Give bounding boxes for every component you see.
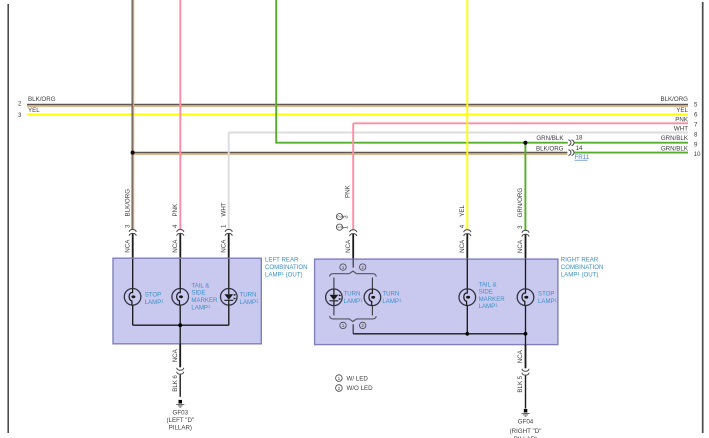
svg-text:NCA: NCA xyxy=(172,348,179,362)
svg-text:1: 1 xyxy=(220,224,227,228)
svg-text:COMBINATION: COMBINATION xyxy=(561,264,604,271)
svg-text:TURN: TURN xyxy=(240,292,257,299)
svg-text:1: 1 xyxy=(343,225,350,229)
svg-text:NCA: NCA xyxy=(517,239,524,253)
svg-text:COMBINATION: COMBINATION xyxy=(265,264,308,271)
svg-text:(LEFT "D": (LEFT "D" xyxy=(166,417,194,424)
svg-text:TAIL &: TAIL & xyxy=(479,281,497,288)
svg-text:WHT: WHT xyxy=(674,125,688,132)
svg-text:PNK: PNK xyxy=(675,116,689,123)
svg-text:FR11: FR11 xyxy=(575,154,590,161)
svg-text:GRN/BLK: GRN/BLK xyxy=(536,135,564,142)
svg-text:NCA: NCA xyxy=(124,239,131,253)
svg-text:YEL: YEL xyxy=(28,107,40,114)
svg-text:SIDE: SIDE xyxy=(479,289,493,296)
svg-text:NCA: NCA xyxy=(459,239,466,253)
svg-text:3: 3 xyxy=(343,215,350,219)
svg-text:SIDE: SIDE xyxy=(191,290,205,297)
svg-text:NCA: NCA xyxy=(220,239,227,253)
svg-text:4: 4 xyxy=(459,224,466,228)
svg-text:BLK/ORG: BLK/ORG xyxy=(536,145,564,152)
svg-text:8: 8 xyxy=(694,131,698,138)
svg-text:3: 3 xyxy=(18,112,22,119)
svg-text:GF04: GF04 xyxy=(518,419,534,426)
svg-text:10: 10 xyxy=(694,151,701,158)
svg-text:TURN: TURN xyxy=(344,291,361,298)
svg-text:3: 3 xyxy=(124,224,131,228)
svg-text:LEFT REAR: LEFT REAR xyxy=(265,257,299,264)
svg-text:MARKER: MARKER xyxy=(191,297,218,304)
svg-text:STOP: STOP xyxy=(145,292,161,299)
svg-text:2: 2 xyxy=(361,323,364,328)
svg-text:6: 6 xyxy=(172,375,179,379)
svg-text:5: 5 xyxy=(517,375,524,379)
svg-text:LAMP1 (OUT): LAMP1 (OUT) xyxy=(265,271,303,279)
svg-text:1: 1 xyxy=(342,323,345,328)
svg-text:W/ LED: W/ LED xyxy=(347,375,369,382)
svg-text:LAMP1 (OUT): LAMP1 (OUT) xyxy=(561,271,599,279)
svg-text:7: 7 xyxy=(694,122,698,129)
svg-text:1: 1 xyxy=(338,376,341,381)
svg-text:YEL: YEL xyxy=(676,107,688,114)
svg-text:GRN/ORG: GRN/ORG xyxy=(517,188,524,218)
svg-text:BLK: BLK xyxy=(172,379,179,392)
svg-text:5: 5 xyxy=(694,102,698,109)
svg-text:W/O LED: W/O LED xyxy=(347,385,374,392)
svg-text:RIGHT REAR: RIGHT REAR xyxy=(561,257,599,264)
svg-text:GRN/BLK: GRN/BLK xyxy=(661,135,689,142)
svg-text:4: 4 xyxy=(172,224,179,228)
svg-text:2: 2 xyxy=(361,265,364,270)
svg-text:GF03: GF03 xyxy=(173,410,189,417)
svg-text:MARKER: MARKER xyxy=(479,296,506,303)
svg-text:NCA: NCA xyxy=(172,239,179,253)
svg-text:GRN/BLK: GRN/BLK xyxy=(661,145,689,152)
svg-text:TAIL &: TAIL & xyxy=(191,282,209,289)
svg-text:(RIGHT "D": (RIGHT "D" xyxy=(510,428,542,435)
svg-text:PILLAR): PILLAR) xyxy=(169,425,192,432)
svg-text:NCA: NCA xyxy=(517,349,524,363)
svg-text:2: 2 xyxy=(18,101,22,108)
svg-text:2: 2 xyxy=(338,386,341,391)
svg-text:TURN: TURN xyxy=(382,291,399,298)
svg-text:PNK: PNK xyxy=(344,184,351,198)
svg-text:9: 9 xyxy=(694,142,698,149)
svg-text:1: 1 xyxy=(342,265,345,270)
svg-text:BLK/ORG: BLK/ORG xyxy=(28,96,56,103)
svg-text:WHT: WHT xyxy=(220,202,227,216)
svg-text:BLK: BLK xyxy=(517,380,524,393)
svg-text:PNK: PNK xyxy=(172,203,179,217)
svg-text:STOP: STOP xyxy=(538,291,554,298)
svg-text:NCA: NCA xyxy=(345,239,352,253)
svg-text:3: 3 xyxy=(517,225,524,229)
svg-text:YEL: YEL xyxy=(459,205,466,217)
svg-text:BLK/ORG: BLK/ORG xyxy=(660,96,688,103)
svg-text:BLK/ORG: BLK/ORG xyxy=(124,189,131,217)
svg-text:14: 14 xyxy=(576,145,583,152)
svg-text:6: 6 xyxy=(694,112,698,119)
svg-text:18: 18 xyxy=(576,135,583,142)
